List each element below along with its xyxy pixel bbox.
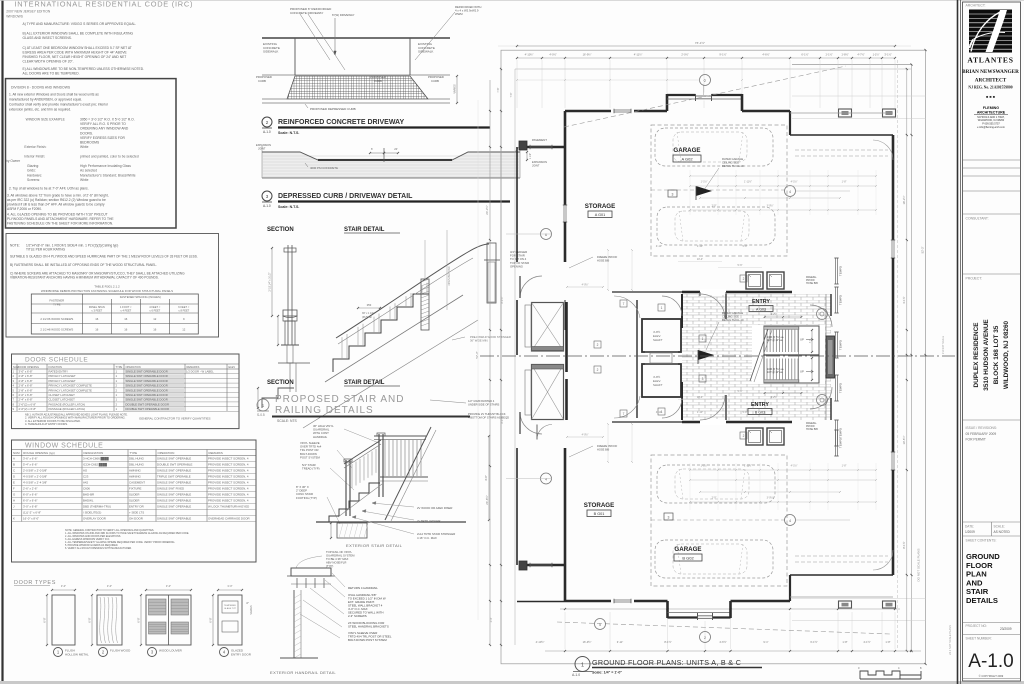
svg-text:8'-1½": 8'-1½" <box>500 296 504 303</box>
svg-text:PROVIDE INSECT SCREEN, 4: PROVIDE INSECT SCREEN, 4 <box>208 457 249 461</box>
svg-text:SINGLE SWT OPERABLE DOOR: SINGLE SWT OPERABLE DOOR <box>126 379 168 383</box>
svg-text:EXPANSION: EXPANSION <box>532 160 547 164</box>
svg-text:6: 6 <box>545 233 547 237</box>
svg-text:CURB: CURB <box>431 79 439 83</box>
svg-text:CLEAR WIDTH OPENING OF 20".: CLEAR WIDTH OPENING OF 20". <box>23 60 74 64</box>
svg-text:POST SYSTEM: POST SYSTEM <box>300 455 321 459</box>
svg-text:4'-0½": 4'-0½" <box>549 53 556 57</box>
svg-text:4: 4 <box>789 519 791 523</box>
svg-text:DEPRESSED CURB / DRIVEWAY DETA: DEPRESSED CURB / DRIVEWAY DETAIL <box>278 193 413 200</box>
svg-text:4'-6½": 4'-6½" <box>719 640 726 644</box>
svg-text:1'-1½": 1'-1½" <box>701 180 708 184</box>
svg-text:DETAIL TH UL-10: DETAIL TH UL-10 <box>722 164 744 168</box>
svg-text:STAIR DETAIL: STAIR DETAIL <box>344 227 385 233</box>
svg-text:NJ REG. No. 21AI01559800: NJ REG. No. 21AI01559800 <box>968 86 1012 90</box>
svg-text:4'-1½": 4'-1½" <box>791 464 798 468</box>
svg-text:16: 16 <box>153 328 157 332</box>
svg-text:8'-1½": 8'-1½" <box>664 640 671 644</box>
svg-text:1'-8½": 1'-8½" <box>841 53 848 57</box>
svg-text:FOOTING (TYP): FOOTING (TYP) <box>296 496 317 500</box>
svg-text:DOOR OPENING: DOOR OPENING <box>19 365 39 369</box>
svg-text:AWNING: AWNING <box>129 469 142 473</box>
svg-text:REMARKS: REMARKS <box>187 365 200 369</box>
svg-text:e info@fleming-arch.com: e info@fleming-arch.com <box>977 126 1005 129</box>
svg-text:(1)1'-2" x 6'-8": (1)1'-2" x 6'-8" <box>23 511 41 515</box>
svg-text:3050 = 3'-0 1/2" R.O. X 5'-0: 3050 = 3'-0 1/2" R.O. X 5'-0 1/2" R.O. <box>80 118 135 122</box>
svg-text:Screens:: Screens: <box>27 178 40 182</box>
svg-text:6 FEET <: 6 FEET < <box>178 305 189 309</box>
svg-text:2'-8" x 6'-8": 2'-8" x 6'-8" <box>19 384 33 388</box>
svg-text:ELEV: ELEV <box>229 365 236 369</box>
svg-text:PROJECT NO:: PROJECT NO: <box>966 624 987 628</box>
svg-text:SINGLE SWT OPERABLE: SINGLE SWT OPERABLE <box>157 457 191 461</box>
svg-text:8'-1½": 8'-1½" <box>500 416 504 423</box>
svg-text:1'-8": 1'-8" <box>842 181 847 184</box>
svg-text:DOOR TYPES: DOOR TYPES <box>14 580 56 586</box>
svg-text:C) AT LEAST ONE BEDROOM WINDO: C) AT LEAST ONE BEDROOM WINDOW SHALL EXC… <box>23 46 132 50</box>
svg-text:B G02: B G02 <box>682 555 694 560</box>
svg-text:2'-0" x 6'-8": 2'-0" x 6'-8" <box>19 393 33 397</box>
svg-text:≤ 8 FEET: ≤ 8 FEET <box>178 309 189 313</box>
svg-text:OPERATION: OPERATION <box>158 451 175 455</box>
svg-text:PRIVACY LATCHSET COMPLETE: PRIVACY LATCHSET COMPLETE <box>49 388 92 392</box>
svg-text:2'-8" x 6'-8": 2'-8" x 6'-8" <box>19 379 33 383</box>
svg-text:As selected: As selected <box>80 169 97 173</box>
svg-text:SECTION: SECTION <box>267 227 294 233</box>
svg-text:2'-6" x 2'-6": 2'-6" x 2'-6" <box>23 487 38 491</box>
svg-text:SINGLE SWT FIXED: SINGLE SWT FIXED <box>157 487 184 491</box>
svg-text:SINGLE SWT OPERABLE: SINGLE SWT OPERABLE <box>157 493 191 497</box>
svg-text:≤ 6 FEET: ≤ 6 FEET <box>149 309 160 313</box>
svg-text:4'-8": 4'-8" <box>810 339 812 344</box>
svg-text:PROVIDE 2V THRUST BLOCK: PROVIDE 2V THRUST BLOCK <box>468 412 506 416</box>
svg-text:7'-6": 7'-6" <box>510 92 513 97</box>
svg-text:1 FOOT <: 1 FOOT < <box>120 305 132 309</box>
svg-text:HOLLOW METAL: HOLLOW METAL <box>65 653 89 657</box>
svg-text:≤ 3 FEET: ≤ 3 FEET <box>91 309 102 313</box>
svg-text:4 16" O.C. MAX: 4 16" O.C. MAX <box>417 536 437 540</box>
svg-text:1'-11½": 1'-11½" <box>744 464 752 468</box>
svg-text:DIVISION 8 - DOORS AND WINDOWS: DIVISION 8 - DOORS AND WINDOWS <box>11 86 71 90</box>
svg-text:7'-6": 7'-6" <box>496 87 500 92</box>
svg-text:BRIAN NEWSWANGER: BRIAN NEWSWANGER <box>962 69 1019 75</box>
svg-text:TABLE R301.2.1.2: TABLE R301.2.1.2 <box>94 285 120 289</box>
svg-text:SINGLE SWT OPERABLE: SINGLE SWT OPERABLE <box>157 481 191 485</box>
svg-text:4'-0 5/8" x 2'-4 3/8": 4'-0 5/8" x 2'-4 3/8" <box>23 481 47 485</box>
svg-text:WOOD LOUVER: WOOD LOUVER <box>159 649 183 653</box>
svg-text:STAIR: STAIR <box>966 587 989 596</box>
svg-text:1'-1½": 1'-1½" <box>701 464 708 468</box>
svg-text:by Owner: by Owner <box>6 159 21 163</box>
svg-text:2'-4" x 6'-8": 2'-4" x 6'-8" <box>19 398 33 402</box>
svg-text:REINFORCED CONCRETE DRIVEWAY: REINFORCED CONCRETE DRIVEWAY <box>278 119 404 126</box>
svg-text:16: 16 <box>95 317 99 321</box>
svg-text:SINGLE SWT OPERABLE DOOR: SINGLE SWT OPERABLE DOOR <box>126 384 168 388</box>
svg-text:6'-1½": 6'-1½" <box>801 53 808 57</box>
svg-text:Grids:: Grids: <box>27 169 36 173</box>
svg-text:1'-4": 1'-4" <box>490 617 493 622</box>
svg-text:DOUBLE SWT OPERABLE DOOR: DOUBLE SWT OPERABLE DOOR <box>126 407 169 411</box>
svg-text:PRIVACY LATCHSET COMPLETE: PRIVACY LATCHSET COMPLETE <box>49 384 92 388</box>
svg-text:(TYP): (TYP) <box>326 564 333 568</box>
svg-text:BEDROOMS: BEDROOMS <box>80 141 100 145</box>
svg-text:36" x 1 1/4": 36" x 1 1/4" <box>362 312 374 315</box>
svg-text:OVERHEAD CARRIAGE DOOR: OVERHEAD CARRIAGE DOOR <box>208 517 250 521</box>
svg-text:4. THRESHOLD AT ENTRY DOORS.: 4. THRESHOLD AT ENTRY DOORS. <box>25 422 68 426</box>
svg-text:STEEL HANDRAIL BRACKETS: STEEL HANDRAIL BRACKETS <box>348 625 389 629</box>
svg-text:ARCHITECT: ARCHITECT <box>975 78 1007 84</box>
svg-text:TYPE: TYPE <box>130 451 138 455</box>
svg-text:SHEET NUMBER:: SHEET NUMBER: <box>966 637 992 641</box>
svg-text:4'-0½": 4'-0½" <box>582 433 589 437</box>
svg-text:OPENING: OPENING <box>510 264 523 268</box>
svg-text:extension jambs, etc. and trim: extension jambs, etc. and trim as requir… <box>9 108 71 112</box>
svg-text:10 T @ 10" ea.: 10 T @ 10" ea. <box>767 371 783 374</box>
svg-text:Manufacturer's Standard; Bras: Manufacturer's Standard; Brass/White <box>80 173 136 177</box>
svg-text:SECTION: SECTION <box>267 380 294 386</box>
svg-text:NOTE:: NOTE: <box>10 244 20 248</box>
svg-text:GROUND FLOOR PLANS: UNITS A, B: GROUND FLOOR PLANS: UNITS A, B & C <box>592 658 741 667</box>
svg-text:Scale: N.T.S.: Scale: N.T.S. <box>278 131 299 135</box>
svg-text:B: B <box>13 463 15 467</box>
svg-text:A G01: A G01 <box>595 213 606 217</box>
svg-text:5'-8": 5'-8" <box>743 411 748 414</box>
svg-text:GARAGE: GARAGE <box>673 147 700 154</box>
svg-text:ROUGH OPENING (typ): ROUGH OPENING (typ) <box>23 451 55 455</box>
svg-text:DOORS.: DOORS. <box>80 131 93 135</box>
svg-text:3'-11": 3'-11" <box>617 640 623 644</box>
svg-text:FREEZE PROOF: FREEZE PROOF <box>597 255 618 259</box>
svg-text:Scale: N.T.S.: Scale: N.T.S. <box>278 205 299 209</box>
svg-text:ENTRY: ENTRY <box>752 299 770 305</box>
svg-text:BLOCK 168 LOT 35: BLOCK 168 LOT 35 <box>993 325 1000 384</box>
svg-text:W LOCK THUMBTURN-KEYED: W LOCK THUMBTURN-KEYED <box>208 505 249 509</box>
svg-text:SIDEWALK: SIDEWALK <box>418 50 433 54</box>
svg-text:GLASS TYP: GLASS TYP <box>224 607 237 610</box>
svg-text:DUPLEX RESIDENCE: DUPLEX RESIDENCE <box>973 322 980 388</box>
svg-text:WILDWOOD, NJ 08260: WILDWOOD, NJ 08260 <box>1003 320 1010 389</box>
svg-text:DATE:: DATE: <box>965 525 974 529</box>
svg-text:A-1.0: A-1.0 <box>968 651 1013 672</box>
svg-text:BHDWL: BHDWL <box>83 499 94 503</box>
svg-text:16'-9½": 16'-9½" <box>583 640 592 644</box>
svg-text:D: D <box>13 475 15 479</box>
svg-text:PROVIDE INSECT SCREEN, 4: PROVIDE INSECT SCREEN, 4 <box>208 499 249 503</box>
svg-text:UP: UP <box>800 338 804 342</box>
svg-text:6'-8": 6'-8" <box>88 617 92 622</box>
svg-text:UP: UP <box>800 370 804 374</box>
svg-text:2'-0 5/8" x 2'-0 5/8": 2'-0 5/8" x 2'-0 5/8" <box>23 469 47 473</box>
svg-text:STORAGE: STORAGE <box>584 502 614 509</box>
svg-text:STAIR DETAIL: STAIR DETAIL <box>344 380 385 386</box>
svg-text:TEMPD: TEMPD <box>839 295 843 305</box>
svg-text:TEMPD: TEMPD <box>839 340 843 350</box>
svg-text:4'-10": 4'-10" <box>656 411 662 414</box>
svg-text:2: 2 <box>597 368 599 372</box>
svg-text:Exterior Finish:: Exterior Finish: <box>24 145 46 149</box>
svg-text:CONCRETE DRIVEWAY: CONCRETE DRIVEWAY <box>290 11 323 15</box>
svg-text:SCALE: NTS: SCALE: NTS <box>277 419 298 423</box>
svg-text:DESIGNATION: DESIGNATION <box>84 451 104 455</box>
svg-text:6'-8": 6'-8" <box>209 617 213 622</box>
svg-text:Contractor shall verify and pr: Contractor shall verify and provide manu… <box>9 103 109 107</box>
svg-text:RATED GARAGE: RATED GARAGE <box>722 157 743 161</box>
svg-text:2-3" SCREWS: 2-3" SCREWS <box>348 614 367 618</box>
svg-text:4: 4 <box>789 190 791 194</box>
svg-text:FLOOR: FLOOR <box>966 561 993 570</box>
svg-text:SHAFT: SHAFT <box>653 338 663 342</box>
svg-text:FLUSH WOOD: FLUSH WOOD <box>110 649 131 653</box>
svg-text:16'-0" x 8'-0": 16'-0" x 8'-0" <box>23 517 39 521</box>
svg-text:/CCH-C662 ████: /CCH-C662 ████ <box>83 463 108 467</box>
svg-text:GENERAL CONTRACTOR TO VERIFY Q: GENERAL CONTRACTOR TO VERIFY QUANTITIES <box>139 417 211 421</box>
svg-text:16'-9½": 16'-9½" <box>583 53 592 57</box>
svg-text:24'-3½": 24'-3½" <box>485 205 489 214</box>
svg-text:AWNING: AWNING <box>129 475 142 479</box>
svg-text:DETAILS: DETAILS <box>966 596 998 605</box>
svg-text:PLYWOOD PANELS AND ATTACHMENT: PLYWOOD PANELS AND ATTACHMENT HARDWARE. … <box>7 217 114 221</box>
svg-text:© COPYRIGHT 2009: © COPYRIGHT 2009 <box>979 674 1004 678</box>
svg-text:JOINT: JOINT <box>258 147 266 151</box>
svg-text:SINGLE SWT OPERABLE: SINGLE SWT OPERABLE <box>157 505 191 509</box>
svg-text:1'-1½": 1'-1½" <box>825 53 832 57</box>
svg-text:CEILING SEE: CEILING SEE <box>722 314 739 318</box>
svg-text:GARAGE: GARAGE <box>674 546 701 553</box>
svg-text:2: 2 <box>704 636 706 640</box>
svg-text:VIBRATION-RESISTANT ANCHORS HA: VIBRATION-RESISTANT ANCHORS HAVING A MIN… <box>10 276 159 280</box>
svg-text:TREAD (TYP): TREAD (TYP) <box>302 467 320 471</box>
svg-text:EGRESS AREA PER CODE WITH MAXI: EGRESS AREA PER CODE WITH MAXIMUM HEIGHT… <box>23 51 128 55</box>
svg-text:TITLE PER HOUR RATING: TITLE PER HOUR RATING <box>26 248 66 252</box>
svg-text:12: 12 <box>182 328 186 332</box>
svg-text:/ SIDELITE(S): / SIDELITE(S) <box>83 511 101 515</box>
svg-text:10'-4": 10'-4" <box>697 258 703 261</box>
svg-text:A) TYPE AND MANUFACTURE: VIS: A) TYPE AND MANUFACTURE: VISIGO S SERIES… <box>23 22 137 26</box>
svg-text:A-1.0: A-1.0 <box>263 130 271 134</box>
svg-text:WINDBORNE DEBRIS PROTECTION FA: WINDBORNE DEBRIS PROTECTION FASTENING SC… <box>41 289 173 293</box>
svg-text:4'-1½": 4'-1½" <box>863 640 870 644</box>
svg-text:24.1 NOT SCALE PLANS: 24.1 NOT SCALE PLANS <box>948 625 952 655</box>
svg-text:2'-6"(2) x 6'-8": 2'-6"(2) x 6'-8" <box>19 407 37 411</box>
svg-text:3: 3 <box>672 192 674 196</box>
svg-text:WINDOWS: WINDOWS <box>6 15 23 19</box>
svg-text:PROVIDE INSECT SCREEN, 4: PROVIDE INSECT SCREEN, 4 <box>208 487 249 491</box>
svg-text:PROPOSED STAIR AND: PROPOSED STAIR AND <box>275 394 405 405</box>
svg-text:DOUBLE SWT OPERABLE: DOUBLE SWT OPERABLE <box>157 463 193 467</box>
svg-text:2. Top of all windows to be at: 2. Top of all windows to be at 7'-0" AFF… <box>9 187 89 191</box>
svg-text:S-0.5: S-0.5 <box>257 413 265 417</box>
svg-text:CLOSET LATCHSET: CLOSET LATCHSET <box>49 398 76 402</box>
svg-text:WINDOW SCHEDULE: WINDOW SCHEDULE <box>25 443 103 450</box>
svg-text:ORDERING ANY WINDOW AND: ORDERING ANY WINDOW AND <box>80 127 129 131</box>
svg-text:C606: C606 <box>83 487 90 491</box>
svg-text:ATLANTES: ATLANTES <box>967 56 1013 65</box>
svg-text:23/2009: 23/2009 <box>1000 627 1012 631</box>
svg-text:(36.5) SF: (36.5) SF <box>362 316 373 319</box>
svg-text:3510 HUDSON AVENUE: 3510 HUDSON AVENUE <box>983 319 990 391</box>
svg-text:EXPANSION: EXPANSION <box>256 143 271 147</box>
svg-text:PASSAGE (ROLLER LATCH): PASSAGE (ROLLER LATCH) <box>49 402 86 406</box>
svg-text:ENTRY: ENTRY <box>751 402 769 408</box>
svg-text:as per IRC 322 (u) Railclan; s: as per IRC 322 (u) Railclan; section R61… <box>7 198 106 202</box>
svg-text:OPERATION: OPERATION <box>126 365 141 369</box>
svg-text:HOSE BIB: HOSE BIB <box>806 428 818 431</box>
svg-text:3. All windows above 72" from: 3. All windows above 72" from grade to h… <box>7 194 109 198</box>
svg-text:VARIES: VARIES <box>453 84 457 94</box>
svg-text:3'-0": 3'-0" <box>107 584 112 588</box>
svg-text:2V WOOD OR AZEK RISER: 2V WOOD OR AZEK RISER <box>417 506 452 510</box>
svg-text:1/2009: 1/2009 <box>965 530 975 534</box>
svg-text:4'-0 5/8" x 2'-0 5/8": 4'-0 5/8" x 2'-0 5/8" <box>23 475 47 479</box>
svg-text:UNDER SIDE OF STAIRS: UNDER SIDE OF STAIRS <box>468 403 500 407</box>
svg-text:K: K <box>13 517 15 521</box>
svg-text:1-1½": 1-1½" <box>873 53 880 57</box>
svg-text:3'-0½": 3'-0½" <box>767 496 774 500</box>
svg-text:REMARKS: REMARKS <box>209 451 223 455</box>
svg-text:SCALE:: SCALE: <box>994 525 1005 529</box>
svg-text:FIXTURE: FIXTURE <box>129 487 141 491</box>
svg-text:4'-1½": 4'-1½" <box>791 180 798 184</box>
svg-text:OH DOOR: OH DOOR <box>129 517 143 521</box>
svg-text:6"(W) DRIVEWAY: 6"(W) DRIVEWAY <box>332 13 355 17</box>
svg-text:RETURN 4 HANDRAIL: RETURN 4 HANDRAIL <box>348 586 378 590</box>
svg-text:2'-8" x 6'-8": 2'-8" x 6'-8" <box>19 374 33 378</box>
svg-text:VARIES: VARIES <box>249 605 253 615</box>
svg-text:3'-6" x 6'-6": 3'-6" x 6'-6" <box>23 457 38 461</box>
svg-text:GLASS AND INSECT SCREENS.: GLASS AND INSECT SCREENS. <box>23 36 72 40</box>
svg-text:ISSUE / REVISIONS:: ISSUE / REVISIONS: <box>966 426 998 430</box>
svg-text:Glazing:: Glazing: <box>27 164 39 168</box>
svg-text:2'-10 1/4" ± 3 1/2": 2'-10 1/4" ± 3 1/2" <box>269 272 272 291</box>
svg-text:18'-3½": 18'-3½" <box>902 195 906 204</box>
svg-text:JOINT: JOINT <box>532 164 540 168</box>
svg-text:FASTENING SCHEDULE ON THE SHEE: FASTENING SCHEDULE ON THE SHEET FOR MORE… <box>7 222 113 226</box>
svg-text:HOSE BIB: HOSE BIB <box>597 259 610 263</box>
svg-text:76'-1½": 76'-1½" <box>695 41 705 45</box>
svg-text:2: 2 <box>743 277 745 281</box>
svg-text:RATED GARAGE: RATED GARAGE <box>722 311 743 315</box>
svg-text:52'-3": 52'-3" <box>475 351 479 358</box>
svg-text:SINGLE SWT OPERABLE DOOR: SINGLE SWT OPERABLE DOOR <box>126 393 168 397</box>
svg-text:≤ 4 FEET: ≤ 4 FEET <box>120 309 131 313</box>
svg-text:PROVIDE INSECT SCREEN, 4: PROVIDE INSECT SCREEN, 4 <box>208 481 249 485</box>
svg-text:A: A <box>13 457 15 461</box>
svg-text:OVERLAY DOOR: OVERLAY DOOR <box>83 517 106 521</box>
svg-text:STORAGE: STORAGE <box>585 203 615 210</box>
svg-text:Scale: 1/4" = 1'-0": Scale: 1/4" = 1'-0" <box>592 671 622 675</box>
svg-text:2007 NEW JERSEY EDITION: 2007 NEW JERSEY EDITION <box>6 10 51 14</box>
svg-text:1/2" GWB PAINTED 4: 1/2" GWB PAINTED 4 <box>468 399 495 403</box>
svg-text:1 1/2": 1 1/2" <box>529 153 532 159</box>
svg-text:Interior Finish:: Interior Finish: <box>24 155 45 159</box>
svg-text:DBL HUNG: DBL HUNG <box>129 457 145 461</box>
svg-text:F: F <box>13 487 15 491</box>
svg-text:FASTENER SPACING (INCHES): FASTENER SPACING (INCHES) <box>120 295 161 299</box>
svg-text:3'-0½": 3'-0½" <box>767 204 774 208</box>
svg-text:WWM: WWM <box>455 12 463 16</box>
svg-text:2'-9": 2'-9" <box>712 497 717 500</box>
svg-text:12: 12 <box>153 317 157 321</box>
svg-text:SINGLE SWT OPERABLE: SINGLE SWT OPERABLE <box>157 469 191 473</box>
svg-text:CONSULTANT:: CONSULTANT: <box>966 217 989 221</box>
svg-text:2'-8 NOT SCALE: 2'-8 NOT SCALE <box>942 336 945 354</box>
svg-text:5'-6": 5'-6" <box>738 390 743 393</box>
svg-text:RAILING DETAILS: RAILING DETAILS <box>275 405 374 416</box>
svg-text:1/2 DOOR - W LABEL: 1/2 DOOR - W LABEL <box>186 370 214 374</box>
svg-text:A G03: A G03 <box>756 307 766 311</box>
svg-text:EXTERIOR HANDRAIL DETAIL: EXTERIOR HANDRAIL DETAIL <box>270 670 336 675</box>
svg-text:1'-8": 1'-8" <box>842 465 847 468</box>
svg-text:FUNCTION: FUNCTION <box>49 365 63 369</box>
svg-text:WINDOW SIZE EXAMPLE: WINDOW SIZE EXAMPLE <box>26 118 66 122</box>
svg-text:manufactured by ANDERSEN, or a: manufactured by ANDERSEN, or approved eq… <box>9 98 82 102</box>
svg-text:4'-10½": 4'-10½" <box>525 53 534 57</box>
svg-text:PANEL SPAN: PANEL SPAN <box>89 305 105 309</box>
svg-text:2'-8" x 6'-8": 2'-8" x 6'-8" <box>19 388 33 392</box>
svg-text:PROVIDE INSECT SCREEN, 4: PROVIDE INSECT SCREEN, 4 <box>208 469 249 473</box>
svg-text:2'-0½": 2'-0½" <box>681 53 688 57</box>
svg-text:DETAIL TH UL-10: DETAIL TH UL-10 <box>722 318 744 322</box>
svg-text:20': 20' <box>394 147 398 151</box>
svg-text:R50: R50 <box>367 304 372 307</box>
svg-text:6'-8": 6'-8" <box>43 617 47 622</box>
svg-text:PRIVACY LATCHSET: PRIVACY LATCHSET <box>49 379 76 383</box>
svg-text:RATED ENTRY: RATED ENTRY <box>49 370 69 374</box>
svg-text:5'-8": 5'-8" <box>743 245 748 248</box>
svg-text:PAVEMENT: PAVEMENT <box>532 138 547 142</box>
svg-text:1'-8": 1'-8" <box>885 640 890 644</box>
svg-text:9'-1½": 9'-1½" <box>719 53 726 57</box>
svg-text:3-HCH-C666 ████: 3-HCH-C666 ████ <box>83 457 110 461</box>
svg-text:CURB: CURB <box>258 79 266 83</box>
svg-text:CASEMENT: CASEMENT <box>129 481 145 485</box>
svg-text:PROVIDE INSECT SCREEN, 4: PROVIDE INSECT SCREEN, 4 <box>208 493 249 497</box>
svg-text:TEMPD: TEMPD <box>839 383 843 393</box>
svg-text:2: 2 <box>743 434 745 438</box>
svg-text:4'-10½": 4'-10½" <box>536 640 545 644</box>
svg-text:2: 2 <box>597 343 599 347</box>
svg-text:DO NOT SCALE PLANS: DO NOT SCALE PLANS <box>917 549 921 582</box>
svg-text:A-1.0: A-1.0 <box>263 204 271 208</box>
svg-text:6'-0" x 6'-6": 6'-0" x 6'-6" <box>23 499 38 503</box>
svg-text:3: 3 <box>668 515 670 519</box>
svg-text:10'-5½": 10'-5½" <box>902 435 906 444</box>
svg-text:PRIVACY LATCHSET: PRIVACY LATCHSET <box>49 374 76 378</box>
svg-text:SIDEWALK: SIDEWALK <box>263 50 278 54</box>
svg-text:E: E <box>13 481 15 485</box>
svg-text:TYPE: TYPE <box>116 365 123 369</box>
svg-text:1. All new exterior Windows a: 1. All new exterior Windows and Doors sh… <box>9 93 99 97</box>
svg-text:AND: AND <box>966 578 983 587</box>
svg-text:TRIPLE SWT OPERABLE: TRIPLE SWT OPERABLE <box>157 475 191 479</box>
svg-text:8'-1½": 8'-1½" <box>902 541 906 548</box>
svg-text:6'-0" x 6'-6": 6'-0" x 6'-6" <box>23 493 38 497</box>
svg-text:CURB: CURB <box>374 79 382 83</box>
svg-text:3'-1½": 3'-1½" <box>884 53 891 57</box>
svg-text:16: 16 <box>95 328 99 332</box>
svg-text:DBD (THERMA-TRU): DBD (THERMA-TRU) <box>83 505 111 509</box>
svg-text:3'-0": 3'-0" <box>227 584 232 588</box>
svg-text:16: 16 <box>124 317 128 321</box>
svg-text:B G01: B G01 <box>594 512 605 516</box>
svg-text:DOOR SCHEDULE: DOOR SCHEDULE <box>25 357 88 364</box>
svg-text:TEMPD: TEMPD <box>839 438 843 448</box>
svg-text:3'-0": 3'-0" <box>166 584 171 588</box>
svg-text:1'-8": 1'-8" <box>842 640 847 644</box>
svg-text:E) ALL WINDOWS ARE TO BE NON-: E) ALL WINDOWS ARE TO BE NON-TEMPERED UN… <box>23 67 145 71</box>
svg-text:CLOSET LATCHSET: CLOSET LATCHSET <box>49 393 76 397</box>
svg-text:B) FASTENERS SHALL BE INSTALLE: B) FASTENERS SHALL BE INSTALLED AT OPPOS… <box>10 263 157 267</box>
